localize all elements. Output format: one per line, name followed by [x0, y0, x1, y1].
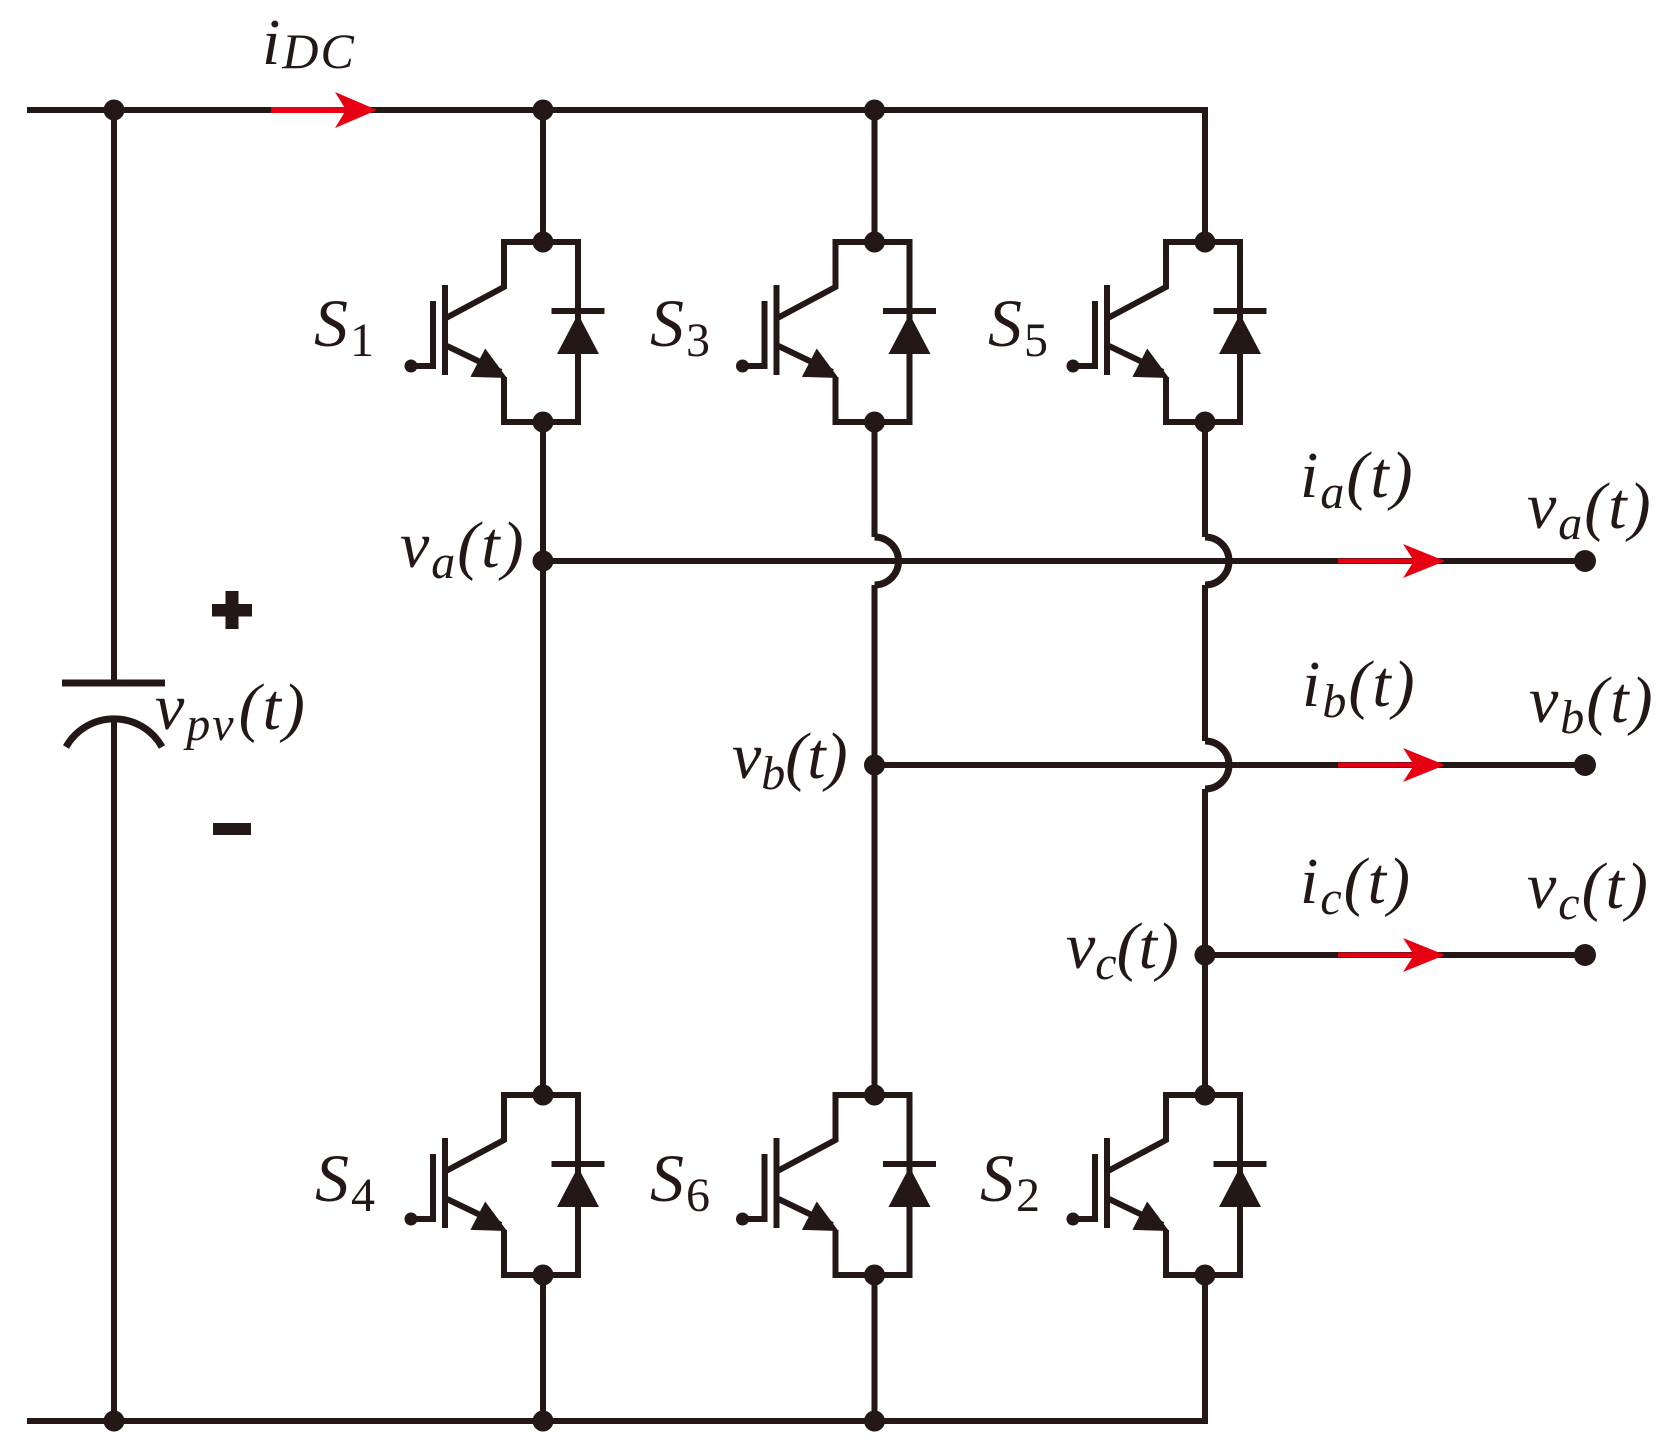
transistor S3 (IGBT): collector lead and top bar: [778, 242, 910, 318]
anti-parallel diode of S2: cathode bar: [1214, 1161, 1267, 1167]
svg-text:S4: S4: [315, 1140, 377, 1222]
current arrow iDC: red tail: [271, 107, 348, 113]
anti-parallel diode of S4: triangle: [557, 1167, 599, 1207]
transistor S2: emitter drop and bottom bar: [1166, 1230, 1240, 1275]
transistor S6: emitter drop and bottom bar: [836, 1230, 910, 1275]
capacitor Cpv: straight top plate: [62, 680, 165, 687]
wire: leg A rail, S4 bottom to bottom bus: [540, 1275, 546, 1421]
wire: phase a output line: [543, 558, 1585, 564]
current arrow ib: red head: [1403, 748, 1445, 782]
transistor S5: emitter drop and bottom bar: [1166, 377, 1240, 422]
transistor S1 (IGBT): collector lead and top bar: [446, 242, 578, 318]
transistor S6 (IGBT): collector lead and top bar: [778, 1095, 910, 1171]
transistor S4: gate lead: [411, 1216, 433, 1222]
current arrow ib: red tail: [1338, 763, 1416, 768]
junction dot: S5 top node: [1195, 232, 1216, 253]
transistor S4: body bar: [442, 1138, 448, 1228]
current arrow iDC: red head: [335, 92, 377, 128]
transistor S5 (IGBT): collector lead and top bar: [1108, 242, 1240, 318]
transistor S5: gate terminal dot: [1067, 360, 1080, 373]
anti-parallel diode of S3: cathode bar: [883, 308, 936, 314]
anti-parallel diode of S3: triangle: [889, 314, 931, 354]
junction dot: S2 top node: [1195, 1085, 1216, 1106]
svg-text:ia(t): ia(t): [1300, 439, 1415, 519]
svg-text:vc(t): vc(t): [1527, 850, 1650, 930]
capacitor Cpv: curved bottom plate: [66, 719, 162, 747]
transistor S2: emitter lead: [1109, 1199, 1163, 1225]
transistor S3: gate lead: [743, 363, 765, 369]
junction dot: top bus at left rail: [104, 100, 125, 121]
junction dot: S3 top node: [864, 232, 885, 253]
svg-text:vpv(t): vpv(t): [155, 671, 307, 751]
wire: leg A rail, S1 bottom to S4 top: [540, 422, 546, 1095]
wire: left rail upper segment (to capacitor top plate): [111, 110, 117, 683]
transistor S4: emitter lead: [447, 1199, 501, 1225]
transistor S4: emitter arrowhead: [470, 1202, 507, 1232]
anti-parallel diode of S5: triangle: [1219, 314, 1261, 354]
transistor S2: gate lead: [1073, 1216, 1095, 1222]
anti-parallel diode of S1: branch wire: [575, 239, 581, 425]
transistor S4: emitter drop and bottom bar: [504, 1230, 578, 1275]
transistor S1: emitter arrowhead: [470, 349, 507, 379]
wire: left rail lower segment (from capacitor bottom plate): [111, 721, 117, 1421]
node vb: phase b tap dot on leg B: [864, 755, 885, 776]
wire hop: leg C rail jumps over phase-b line: [1205, 741, 1229, 789]
wire: leg C rail, hop to S2 top: [1202, 789, 1208, 1095]
IGBT switch S1 with anti-parallel diode: [405, 232, 605, 433]
anti-parallel diode of S3: branch wire: [907, 239, 913, 425]
wire: phase b output line: [875, 762, 1586, 768]
polarity minus sign: [213, 823, 251, 835]
anti-parallel diode of S2: triangle: [1219, 1167, 1261, 1207]
anti-parallel diode of S4: branch wire: [575, 1092, 581, 1278]
anti-parallel diode of S5: branch wire: [1237, 239, 1243, 425]
transistor S5: gate lead: [1073, 363, 1095, 369]
wire: leg C rail between hops: [1202, 585, 1208, 741]
wire: phase c output line: [1205, 952, 1585, 958]
transistor S1: body bar: [442, 285, 448, 375]
transistor S2: emitter arrowhead: [1132, 1202, 1169, 1232]
svg-text:iDC: iDC: [262, 6, 356, 79]
transistor S6: gate lead: [743, 1216, 765, 1222]
wire: leg B rail, hop to S6 top: [872, 585, 878, 1095]
svg-text:ic(t): ic(t): [1300, 845, 1412, 925]
anti-parallel diode of S2: branch wire: [1237, 1092, 1243, 1278]
transistor S1: gate lead: [411, 363, 433, 369]
transistor S5: gate bar: [1092, 301, 1098, 369]
current arrow ic: red tail: [1338, 953, 1416, 958]
transistor S4: gate terminal dot: [405, 1213, 418, 1226]
svg-text:vb(t): vb(t): [1529, 664, 1655, 744]
svg-text:va(t): va(t): [400, 509, 526, 589]
junction dot: S6 bottom node: [864, 1265, 885, 1286]
svg-text:vb(t): vb(t): [732, 720, 848, 800]
svg-text:S5: S5: [988, 285, 1050, 367]
anti-parallel diode of S1: cathode bar: [552, 308, 605, 314]
transistor S5: emitter lead: [1109, 346, 1163, 372]
terminal dot: phase b output: [1574, 754, 1596, 776]
IGBT switch S6 with anti-parallel diode: [736, 1085, 936, 1286]
transistor S4 (IGBT): collector lead and top bar: [446, 1095, 578, 1171]
svg-text:S2: S2: [980, 1140, 1042, 1222]
transistor S1: gate terminal dot: [405, 360, 418, 373]
junction dot: S6 top node: [864, 1085, 885, 1106]
junction dot: S5 bottom node: [1195, 412, 1216, 433]
transistor S4: gate bar: [430, 1154, 436, 1222]
terminal dot: phase a output: [1574, 550, 1596, 572]
IGBT switch S4 with anti-parallel diode: [405, 1085, 605, 1286]
IGBT switch S2 with anti-parallel diode: [1067, 1085, 1267, 1286]
junction dot: S1 bottom node: [533, 412, 554, 433]
transistor S3: body bar: [774, 285, 780, 375]
node vc: phase c tap dot on leg C: [1195, 945, 1216, 966]
polarity plus sign: [212, 591, 252, 629]
svg-text:vc(t): vc(t): [1066, 910, 1179, 990]
current arrow ia: red head: [1403, 544, 1445, 578]
transistor S5: emitter arrowhead: [1132, 349, 1169, 379]
current arrow ic: red head: [1403, 938, 1445, 972]
IGBT switch S5 with anti-parallel diode: [1067, 232, 1267, 433]
transistor S1: gate bar: [430, 301, 436, 369]
current arrow ia: red tail: [1338, 559, 1416, 564]
junction dot: S1 top node: [533, 232, 554, 253]
svg-text:S6: S6: [650, 1140, 712, 1222]
transistor S1: emitter drop and bottom bar: [504, 377, 578, 422]
transistor S3: emitter drop and bottom bar: [836, 377, 910, 422]
wire: leg B rail, S6 bottom to bottom bus: [872, 1275, 878, 1421]
junction dot: S3 bottom node: [864, 412, 885, 433]
svg-text:S3: S3: [650, 285, 712, 367]
terminal dot: phase c output: [1574, 944, 1596, 966]
transistor S2 (IGBT): collector lead and top bar: [1108, 1095, 1240, 1171]
transistor S6: emitter arrowhead: [802, 1202, 839, 1232]
transistor S6: emitter lead: [779, 1199, 833, 1225]
svg-text:ib(t): ib(t): [1302, 648, 1417, 728]
junction dot: S2 bottom node: [1195, 1265, 1216, 1286]
transistor S2: gate terminal dot: [1067, 1213, 1080, 1226]
transistor S3: gate bar: [762, 301, 768, 369]
transistor S6: gate bar: [762, 1154, 768, 1222]
wire: leg B rail, bus to S3 top: [872, 110, 878, 242]
anti-parallel diode of S6: branch wire: [907, 1092, 913, 1278]
transistor S2: gate bar: [1092, 1154, 1098, 1222]
wire hop: leg B rail jumps over phase-a line: [875, 537, 899, 585]
anti-parallel diode of S1: triangle: [557, 314, 599, 354]
wire: top DC bus with corner down to leg C: [27, 110, 1205, 242]
node va: phase a tap dot on leg A: [533, 551, 554, 572]
wire: leg A rail, bus to S1 top: [540, 110, 546, 242]
anti-parallel diode of S4: cathode bar: [552, 1161, 605, 1167]
junction dot: bottom bus at left rail: [104, 1411, 125, 1432]
svg-text:S1: S1: [314, 285, 376, 367]
wire: leg B rail, S3 bottom to phase-a hop: [872, 422, 878, 537]
junction dot: top bus at leg A: [533, 100, 554, 121]
wire hop: leg C rail jumps over phase-a line: [1205, 537, 1229, 585]
anti-parallel diode of S5: cathode bar: [1214, 308, 1267, 314]
transistor S5: body bar: [1104, 285, 1110, 375]
transistor S1: emitter lead: [447, 346, 501, 372]
transistor S2: body bar: [1104, 1138, 1110, 1228]
junction dot: S4 top node: [533, 1085, 554, 1106]
transistor S6: body bar: [774, 1138, 780, 1228]
anti-parallel diode of S6: triangle: [889, 1167, 931, 1207]
transistor S3: gate terminal dot: [736, 360, 749, 373]
junction dot: top bus at leg B: [864, 100, 885, 121]
junction dot: S4 bottom node: [533, 1265, 554, 1286]
junction dot: bottom bus at leg B: [864, 1411, 885, 1432]
wire: leg C rail, S5 bottom to phase-a hop: [1202, 422, 1208, 537]
transistor S3: emitter arrowhead: [802, 349, 839, 379]
junction dot: bottom bus at leg A: [533, 1411, 554, 1432]
anti-parallel diode of S6: cathode bar: [883, 1161, 936, 1167]
wire: bottom DC bus with corner up to leg C: [27, 1275, 1205, 1421]
IGBT switch S3 with anti-parallel diode: [736, 232, 936, 433]
svg-text:va(t): va(t): [1527, 470, 1653, 550]
transistor S6: gate terminal dot: [736, 1213, 749, 1226]
transistor S3: emitter lead: [779, 346, 833, 372]
